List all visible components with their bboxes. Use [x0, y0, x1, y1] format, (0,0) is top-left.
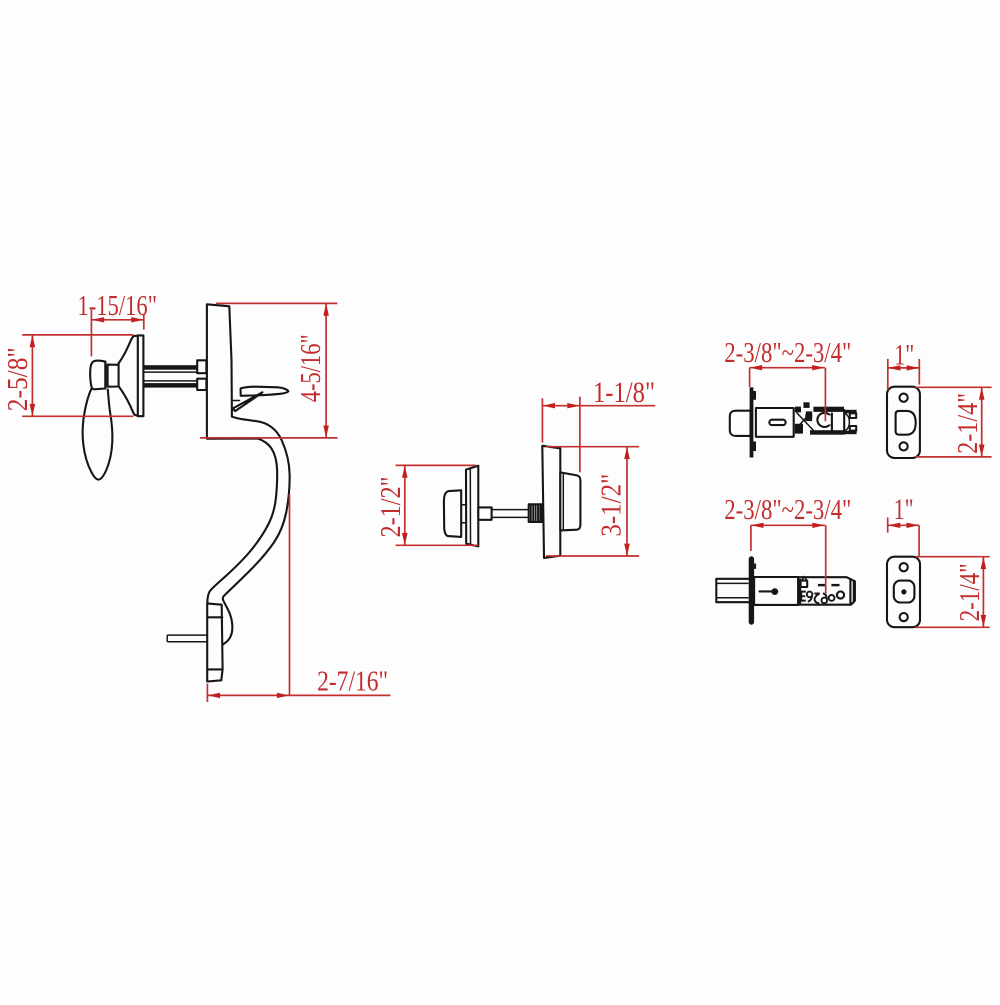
deadbolt latch stamp 269: [814, 594, 819, 604]
svg-text:1-15/16": 1-15/16": [77, 290, 157, 322]
deadbolt latch rear housing: [798, 577, 855, 605]
dimension bottom latch right arrow: [812, 523, 825, 528]
deadbolt latch dash mark 1: [818, 584, 826, 586]
dimension top latch left arrow: [750, 365, 763, 370]
dimension 1-15/16 right arrow: [131, 317, 144, 322]
handleset grip outer curve: [223, 417, 290, 645]
svg-text:2-3/8"~2-3/4": 2-3/8"~2-3/4": [724, 337, 851, 369]
spring latch cam housing edge: [831, 413, 833, 431]
dimension 2-7/16 right arrow: [277, 693, 290, 698]
dimension 2-5/8 down arrow: [30, 404, 36, 416]
dimension 4-5/16 down arrow: [323, 426, 329, 438]
svg-text:2-3/8"~2-3/4": 2-3/8"~2-3/4": [724, 494, 851, 526]
dimension 2-1/2 vertical line: [404, 465, 406, 545]
handleset mounting pin: [167, 635, 207, 642]
spring latch body slot: [769, 420, 785, 425]
svg-text:2-5/8": 2-5/8": [2, 347, 34, 411]
dimension 2-3/8~2-3/4 bottom line: [751, 524, 825, 526]
dimension 1-1/8 right arrow: [567, 403, 580, 408]
deadbolt cylinder body: [560, 472, 580, 530]
deadbolt nut knurl lines: [531, 504, 540, 522]
dimension 3-1/2 vertical line: [626, 447, 628, 556]
deadbolt latch stamp E9: [800, 591, 806, 602]
spring latch faceplate lug lower: [753, 442, 756, 452]
spring latch fork stem: [843, 410, 845, 434]
dimension 2-1/2 down arrow: [402, 533, 408, 545]
dimension 2-1/4 top up arrow: [979, 387, 985, 399]
dimension 1inch bottom right extension: [918, 525, 920, 556]
svg-text:2-7/16": 2-7/16": [317, 666, 388, 698]
dimension top latch right extension: [824, 368, 826, 422]
dimension 3-1/2 up arrow: [624, 447, 630, 459]
dimension 1inch top right extension: [918, 359, 920, 385]
svg-text:1-1/8": 1-1/8": [593, 376, 655, 409]
deadbolt latch dash mark 2: [831, 584, 839, 586]
spring latch adjuster cluster: [795, 407, 812, 434]
deadbolt thumbturn neck lines: [461, 505, 466, 523]
handleset spindle line 3: [143, 380, 197, 382]
dimension 2-7/16 left arrow: [207, 693, 220, 698]
deadbolt cylinder rim line: [562, 473, 564, 530]
deadbolt interior thumbturn knob: [444, 490, 461, 537]
dimension 2-1/4 top lower extension: [915, 456, 992, 458]
dimension 2-1/4 bottom down arrow: [981, 615, 987, 627]
handleset thumb lever shank: [232, 392, 262, 411]
strike plate bottom upper screw hole: [900, 563, 908, 571]
svg-text:2-1/4": 2-1/4": [954, 563, 986, 621]
dimension 2-1/4 bottom vertical line: [982, 557, 984, 628]
deadbolt latch circle: [837, 591, 844, 598]
dimension 1-1/8 line: [542, 405, 655, 407]
spring latch faceplate: [750, 387, 754, 457]
spring latch fork inner curve: [845, 414, 849, 431]
deadbolt latch body: [754, 577, 798, 605]
dimension 1inch bottom right arrow: [907, 523, 920, 528]
handleset spindle line 2: [143, 371, 197, 373]
svg-text:1": 1": [894, 493, 914, 526]
strike plate top D-opening: [896, 411, 916, 435]
strike plate top: [887, 387, 920, 458]
spring latch cam circle: [817, 413, 831, 427]
dimension 2-5/8 up arrow: [30, 335, 36, 347]
deadbolt spindle hub: [478, 507, 491, 519]
strike plate bottom center opening: [894, 581, 915, 603]
dimension bottom latch left arrow: [751, 523, 764, 528]
deadbolt latch end slot: [850, 579, 853, 603]
dimension 2-1/2 bottom extension: [396, 544, 479, 546]
strike plate bottom: [887, 557, 920, 628]
dimension 2-1/4 bottom lower extension: [915, 626, 989, 628]
handleset grip inner curve: [207, 439, 277, 604]
spring latch cam notch: [826, 415, 832, 424]
handleset bottom mount post: [207, 603, 222, 681]
strike plate top lower screw hole: [900, 442, 908, 450]
dimension 4-5/16 vertical line: [325, 303, 327, 438]
handleset lever step line: [232, 400, 240, 402]
deadbolt latch hatched divider: [798, 579, 801, 604]
handleset spindle clamp block lower: [197, 379, 206, 390]
dimension 1-1/8 left arrow: [542, 403, 555, 408]
deadbolt latch adjuster tick: [802, 577, 807, 580]
dimension 2-3/8~2-3/4 top line: [750, 367, 825, 369]
spring latch faceplate lug upper: [753, 391, 756, 400]
handleset pendant teardrop handle: [83, 389, 113, 479]
dimension 1-15/16 line: [92, 319, 144, 321]
handleset knob neck step: [105, 362, 118, 389]
handleset spindle lower bar: [143, 383, 197, 388]
svg-text:3-1/2": 3-1/2": [596, 474, 628, 537]
svg-text:4-5/16": 4-5/16": [295, 334, 327, 402]
deadbolt spindle shaft: [492, 510, 529, 518]
dimension 4-5/16 bottom extension: [200, 437, 338, 439]
spring latch adjuster diagonals: [797, 413, 815, 432]
deadbolt latch collar: [749, 556, 754, 624]
deadbolt exterior plate: [542, 446, 560, 558]
dimension 3-1/2 top extension: [546, 446, 639, 448]
dimension 1inch bottom left extension: [887, 518, 889, 533]
deadbolt latch pin head: [771, 588, 778, 595]
handleset spindle upper bar: [143, 365, 197, 370]
dimension 1inch bottom left arrow: [888, 523, 901, 528]
handleset escutcheon plate: [207, 304, 258, 438]
dimension 1-15/16 left arrow: [92, 317, 105, 322]
spring latch bolt: [730, 411, 751, 436]
dimension 1inch top line: [888, 367, 920, 369]
spring latch fork bottom hook: [850, 426, 856, 431]
strike plate bottom lower screw hole: [900, 613, 908, 621]
dimension 3-1/2 down arrow: [624, 544, 630, 556]
deadbolt latch bolt inner lines: [716, 583, 748, 597]
dimension 2-1/2 top extension: [396, 464, 476, 466]
spring latch top tab: [803, 402, 809, 408]
dimension 1inch top left extension: [887, 359, 889, 390]
dimension 1-15/16 left extension: [90, 310, 92, 357]
dimension 2-5/8 top extension: [22, 334, 133, 336]
deadbolt latch collar notch: [754, 564, 756, 569]
handleset spindle clamp block upper: [197, 360, 206, 373]
dimension bottom latch left extension: [750, 525, 752, 551]
deadbolt interior rose inner line: [469, 468, 471, 544]
dimension 2-1/4 top vertical line: [981, 387, 983, 457]
deadbolt latch bolt: [716, 579, 750, 602]
dimension bottom latch right extension: [825, 525, 827, 594]
spring latch fork bottom prong: [844, 431, 857, 435]
dimension 2-5/8 vertical line: [31, 335, 33, 416]
dimension 2-1/2 up arrow: [402, 465, 408, 477]
deadbolt latch pin: [760, 590, 773, 592]
handleset flared rose trim: [119, 336, 138, 416]
strike plate top upper screw hole: [900, 394, 908, 402]
dimension 2-1/4 top down arrow: [979, 445, 985, 457]
deadbolt knurled nut: [529, 504, 542, 522]
dimension 4-5/16 up arrow: [323, 303, 329, 315]
dimension 1-1/8 left extension: [541, 398, 543, 442]
dimension 2-5/8 bottom extension: [22, 415, 133, 417]
dimension 1-1/8 right extension: [579, 397, 581, 473]
dimension 2-7/16 left extension: [206, 684, 208, 702]
handleset thumb-piece knob: [90, 361, 105, 390]
deadbolt latch adjuster square: [801, 581, 808, 587]
dimension 1inch top left arrow: [888, 365, 901, 370]
dimension 4-5/16 top extension: [216, 302, 337, 304]
strike plate bottom center pilot dot: [901, 589, 906, 594]
dimension 2-1/4 bottom upper extension: [915, 556, 989, 558]
dimension 3-1/2 bottom extension: [546, 555, 639, 557]
dimension 2-7/16 line: [207, 694, 390, 696]
dimension 1-15/16 right extension: [143, 314, 145, 329]
dimension 1inch bottom line: [888, 524, 919, 526]
dimension top latch right arrow: [812, 365, 825, 370]
handleset rose backplate: [138, 335, 144, 416]
dimension 2-1/4 top upper extension: [915, 386, 992, 388]
spring latch fork top prong: [844, 410, 857, 414]
dimension 2-7/16 right extension: [289, 494, 291, 695]
spring latch bottom bar: [810, 430, 844, 435]
spring latch body: [756, 408, 794, 437]
dimension 1inch top right arrow: [907, 365, 920, 370]
dimension top latch left extension: [749, 368, 751, 387]
spring latch top bar: [813, 407, 844, 412]
deadbolt interior rose plate: [466, 466, 478, 547]
spring latch fork top hook: [850, 413, 856, 418]
dimension 2-1/4 bottom up arrow: [981, 557, 987, 569]
svg-text:2-1/2": 2-1/2": [375, 477, 407, 538]
handleset thumb lever blade: [241, 387, 289, 396]
